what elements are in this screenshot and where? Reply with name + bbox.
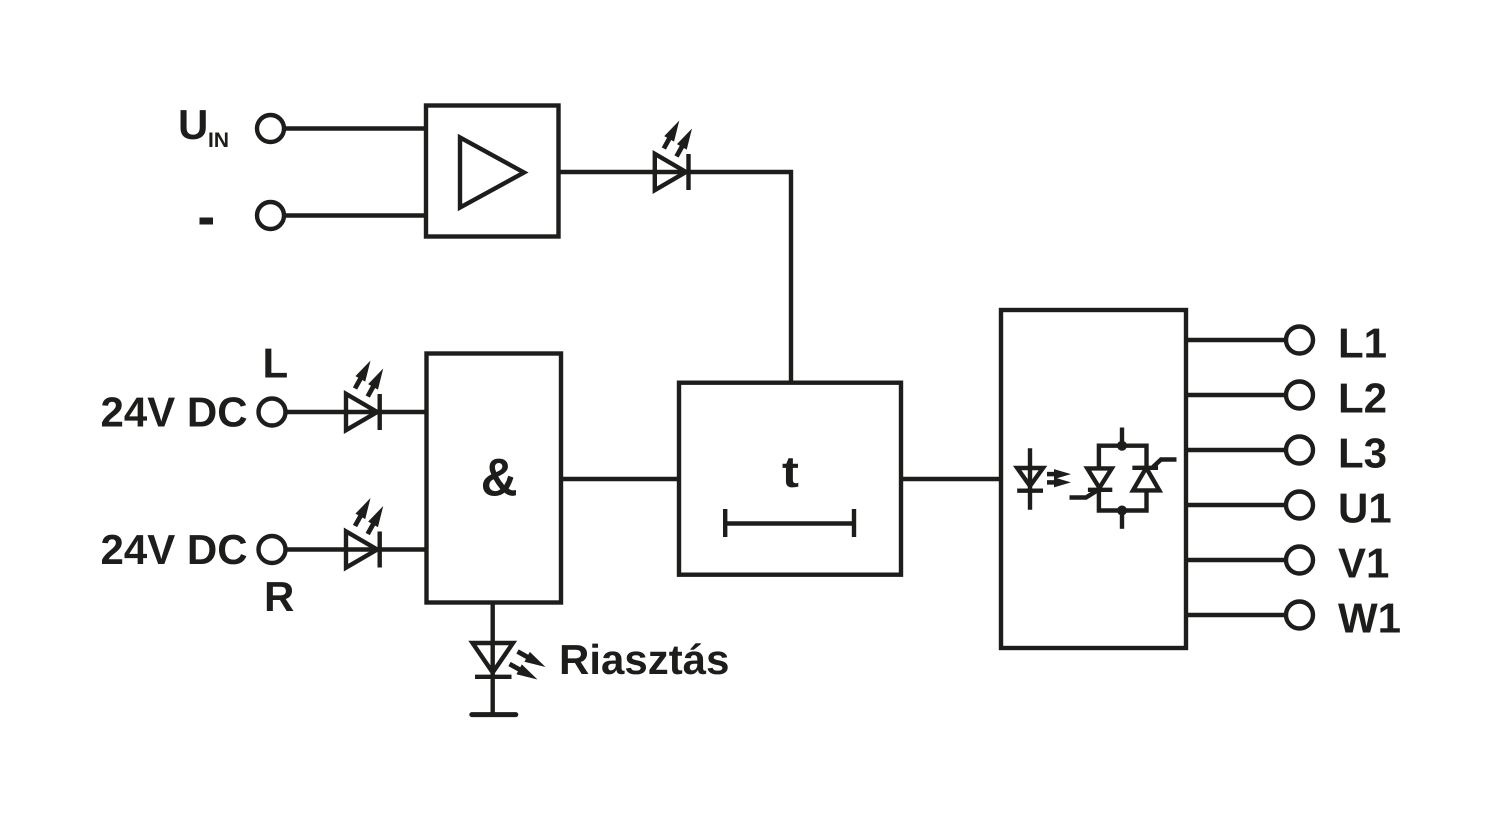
wire L2 bbox=[1186, 393, 1285, 397]
label R bbox=[267, 582, 294, 611]
output block (solid state switch) bbox=[1001, 310, 1186, 648]
wire AND gate to alarm LED and ground bbox=[491, 603, 495, 715]
terminal U_IN plus bbox=[257, 115, 284, 142]
wire terminal R to AND gate bbox=[288, 547, 429, 551]
wire U_IN minus to transducer bbox=[286, 213, 428, 217]
wire timer to output block bbox=[901, 477, 1001, 481]
triac bottom junction bbox=[1117, 506, 1127, 516]
label U1 bbox=[1341, 494, 1391, 523]
wire L3 bbox=[1186, 448, 1285, 452]
label W1 bbox=[1338, 604, 1400, 633]
ground bbox=[472, 712, 516, 717]
terminal W1 bbox=[1286, 602, 1313, 629]
terminal L1 bbox=[1286, 327, 1313, 354]
wire transducer output to timer (via corner) bbox=[559, 172, 792, 383]
amplifier triangle bbox=[460, 138, 524, 208]
triac pair bottom stub bbox=[1120, 511, 1124, 529]
triac left branch wire bbox=[1099, 490, 1147, 511]
label L1 bbox=[1341, 329, 1386, 358]
label minus bbox=[200, 218, 214, 225]
terminal L3 bbox=[1286, 437, 1313, 464]
wire L1 bbox=[1186, 338, 1285, 342]
terminal U_IN minus bbox=[257, 202, 284, 229]
terminal U1 bbox=[1286, 492, 1313, 519]
label V1 bbox=[1338, 549, 1388, 578]
label t bbox=[783, 458, 799, 487]
thyristor V2 (right, pointing up) bbox=[1132, 460, 1176, 491]
wire terminal L to AND gate bbox=[288, 410, 429, 414]
timer interval symbol bbox=[725, 509, 854, 537]
wire W1 bbox=[1186, 613, 1285, 617]
optocoupler light arrows bbox=[1047, 469, 1071, 487]
LED D1 (status) bbox=[655, 118, 697, 190]
label 24V DC (R row) bbox=[102, 535, 246, 565]
label U_IN bbox=[181, 110, 206, 139]
label 24V DC (L row) bbox=[102, 397, 246, 427]
optocoupler LED bbox=[1017, 448, 1043, 510]
LED D4 (alarm) bbox=[473, 643, 549, 684]
terminal L bbox=[259, 399, 286, 426]
terminal L2 bbox=[1286, 382, 1313, 409]
label ampersand bbox=[483, 459, 516, 496]
LED D2 (L input) bbox=[346, 358, 388, 430]
label L bbox=[265, 349, 287, 378]
wire AND gate to timer bbox=[561, 477, 679, 481]
wire U1 bbox=[1186, 503, 1285, 507]
LED D3 (R input) bbox=[346, 495, 388, 567]
triac top junction bbox=[1117, 441, 1127, 451]
label L2 bbox=[1341, 383, 1386, 412]
terminal V1 bbox=[1286, 547, 1313, 574]
AND gate block bbox=[427, 354, 562, 603]
timer block bbox=[679, 383, 901, 575]
label Riasztas bbox=[562, 643, 728, 674]
wire U_IN plus to transducer bbox=[286, 126, 428, 130]
triac pair top stub bbox=[1120, 428, 1124, 446]
measuring transducer block U1 bbox=[426, 106, 559, 237]
terminal R bbox=[259, 536, 286, 563]
thyristor V1 (left, pointing down) bbox=[1070, 468, 1113, 497]
label L3 bbox=[1341, 438, 1386, 468]
wire V1 bbox=[1186, 558, 1285, 562]
triac top rail bbox=[1099, 446, 1147, 469]
